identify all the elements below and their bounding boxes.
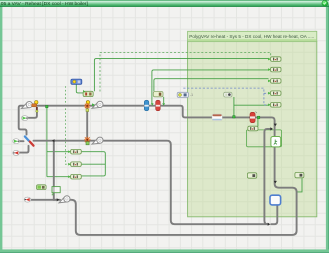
block R2 (268, 67, 281, 72)
svg-text:PolygVAV re-heat - Sys 5 - DX: PolygVAV re-heat - Sys 5 - DX cool, HW h… (189, 34, 314, 39)
panel title band (188, 31, 317, 41)
dashed green link D3 (65, 86, 68, 164)
block B_yellowdot (177, 92, 188, 97)
red arrow oval RA2 (24, 197, 31, 202)
block L1 (68, 149, 81, 154)
sensor S1 (32, 101, 39, 113)
hollow green square GS (52, 187, 61, 195)
green wire G1 (to block R1) (94, 59, 268, 92)
block L2 (68, 162, 81, 167)
arrow on wire W2 (52, 139, 55, 142)
group rect GR1 (composite outline) (246, 130, 281, 147)
green arrow oval GA1 (13, 139, 20, 144)
pen icon P1 (21, 102, 32, 109)
wire W6 vertical (block B_L1mid loop) (264, 129, 271, 224)
block B_bottom1 (37, 185, 47, 190)
pen icon P3 (92, 137, 103, 144)
wire W2 from mixing valve (34, 141, 268, 225)
wire W3 (sensor S1 down to green oval) (28, 111, 37, 118)
green wire G10 (drop to block B_L1mid) (257, 118, 259, 127)
arrow into bottom link (268, 223, 271, 226)
block B_right_of_O (153, 92, 163, 97)
svg-text:05 a VAV - Reheat [DX cool - H: 05 a VAV - Reheat [DX cool - HW boiler] (1, 1, 89, 7)
damper icon CC (212, 114, 222, 120)
wire W4b bottom horizontal to pen (31, 199, 60, 201)
arrow at bottom-left junction (57, 198, 60, 201)
block B_darkdot (224, 92, 232, 97)
red pill valve RP (250, 112, 257, 123)
block R3 (268, 79, 281, 84)
green arrow right of red bar (162, 103, 165, 105)
pen icon P2 (92, 101, 103, 108)
selected block BS (blue border) (270, 195, 281, 205)
green wire G8 (blue block to B_O) (76, 84, 83, 93)
block B_blue (schedule) (71, 79, 82, 84)
green wire G6 (left column feed) (46, 108, 48, 177)
heating coil bar (red) (156, 100, 161, 110)
red arrow oval RA1 (13, 150, 20, 155)
sensor S2 (84, 101, 95, 112)
white action block WS (271, 137, 281, 147)
green arrow oval GA2 (21, 116, 28, 121)
green wire G11 (link to block B_low2) (297, 178, 302, 192)
wire W4 vertical branch down (54, 141, 56, 200)
wire W1 top run (24, 106, 297, 235)
block R1 (268, 57, 281, 62)
block L3 (68, 174, 81, 179)
green wire G2 (to block R2) (152, 70, 269, 103)
green wire G9 (block stub down to main wire) (163, 97, 165, 103)
arrow into R link (270, 127, 273, 130)
green marker at B_O (83, 90, 86, 93)
pen icon P4 (59, 196, 70, 203)
window button (322, 0, 328, 6)
block B_O (83, 91, 93, 96)
junction dot right of red pill (257, 116, 259, 118)
title bar (0, 0, 329, 7)
arrow down on main vertical (274, 181, 277, 184)
arrow down after red pill corner (274, 124, 277, 127)
wire W2b corner up to selected block (271, 205, 277, 224)
junction dot G5 (233, 116, 235, 118)
dashed green link D2 (100, 52, 271, 91)
block R4 (268, 91, 281, 96)
panel body (group container) (188, 42, 317, 217)
green arrow between bars (151, 103, 154, 105)
wire from red oval RA1 up to mixing valve (20, 146, 29, 153)
block B_low2 (295, 172, 304, 177)
green wire G7 (bus right of left blocks) (82, 152, 106, 176)
wire GA1 to mixing valve (19, 140, 24, 142)
block R5 (268, 103, 281, 108)
mixing valve icon (blue/red diagonal) (25, 137, 34, 146)
junction J2 starburst (84, 137, 90, 145)
svg-text:-1: -1 (190, 93, 193, 97)
green wire G5 (to block R5) (233, 97, 235, 116)
wire S2 drop (86, 107, 88, 138)
junction dot on W1 (46, 105, 48, 107)
dashed blue link D1 (183, 88, 264, 105)
cooling coil bar (blue) (144, 100, 149, 110)
block B_L1mid (248, 126, 258, 131)
wire W1 main horizontal run (19, 106, 27, 135)
green wire G3 (to block R3) (154, 79, 269, 92)
block B_low1 (247, 173, 256, 178)
